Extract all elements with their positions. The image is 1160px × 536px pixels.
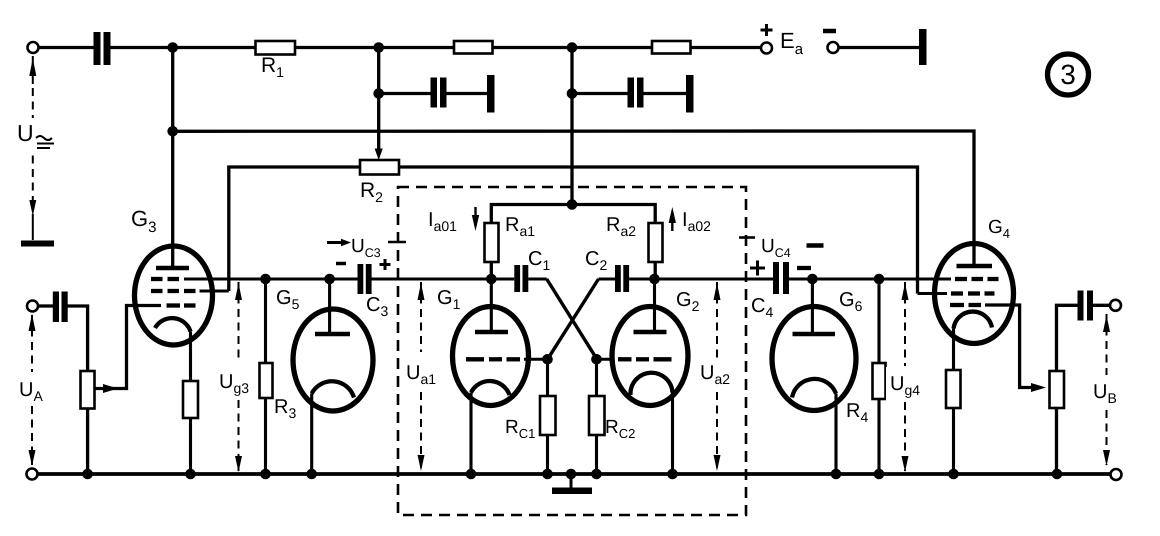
resistor R4	[873, 363, 886, 399]
decoupling left long bar	[487, 75, 495, 113]
node: bus / G6 anode	[807, 274, 818, 285]
node: rail / Rc1	[542, 469, 553, 480]
tube G2 cathode arc	[630, 373, 672, 395]
node: top rail / G3 anode tap	[167, 42, 178, 53]
tube G4 grid row3 (control grid, exits right)	[950, 303, 981, 307]
node: rail / G6 cathode	[831, 469, 842, 480]
polarity plus at Ea	[761, 24, 773, 36]
polarity plus right of C3	[380, 259, 391, 270]
wire bottom rail	[38, 472, 1111, 476]
wire G2 cathode lead	[671, 393, 674, 475]
node: rail / R4	[874, 469, 885, 480]
tube G2 envelope	[612, 307, 688, 406]
terminal: UB output	[1110, 300, 1121, 311]
node: Ra1/Ra2 feed junction	[567, 199, 578, 210]
resistor Rc1	[540, 396, 556, 435]
wire top rail R1 to box2	[295, 46, 454, 49]
node: bus / G5 anode	[324, 274, 335, 285]
terminal: input U~ (top-left)	[28, 42, 39, 53]
tube G5 envelope	[293, 309, 373, 411]
resistor Ra1	[485, 223, 499, 262]
node: rail / G1 cathode	[466, 469, 477, 480]
wire top rail box3 to Ea plus terminal	[691, 46, 762, 49]
capacitor C3 plates	[358, 264, 372, 294]
tube G6 envelope	[772, 307, 856, 411]
tube G5 anode bar	[315, 332, 350, 337]
cross-coupling diagonal C2 to G1 grid	[548, 279, 599, 359]
tube G4 cathode arc	[954, 312, 993, 329]
wire input UA terminal to cap	[38, 304, 53, 307]
wire G1 anode lead	[490, 279, 493, 331]
wire bus diagonal start to C2 left plate	[599, 277, 616, 280]
wire decoupling row right: junction to cap	[572, 92, 628, 95]
capacitor C1 plates	[514, 265, 528, 292]
resistor R3	[260, 363, 273, 398]
tube G4 grid row1 (dashes, joins bus at left)	[955, 277, 999, 281]
tube G4 grid row2 (dashes, exits left up to R2 line)	[918, 292, 995, 295]
wire top rail box2 to box3	[493, 46, 653, 49]
wire vertical x172.7 top rail to G3 anode	[171, 48, 174, 267]
svg-text:3: 3	[1060, 59, 1076, 90]
node: rail / ground stem	[566, 469, 577, 480]
wire Ea minus terminal to end bar	[839, 46, 920, 49]
node: rail / output pot	[1052, 469, 1063, 480]
figure number circled 3	[1048, 54, 1089, 95]
capacitor (input coupling, top-left): plates	[94, 32, 111, 65]
polarity minus at Ea	[823, 29, 836, 34]
wire y167 left segment from G3 grid2 corner to R2	[229, 167, 360, 291]
tube G3 anode plate bar	[156, 266, 189, 271]
node: G1 grid / Rc1 / diagonal	[542, 354, 553, 365]
svg-text:U: U	[17, 120, 34, 146]
decoupling right long bar	[686, 75, 694, 113]
tube G6 anode bar	[793, 332, 836, 337]
node: top rail / Ra feed	[567, 42, 578, 53]
cross-coupling diagonal C1 to G2 grid	[547, 279, 597, 359]
wire G6 cathode lead	[834, 394, 837, 475]
terminal: Ea plus	[761, 43, 772, 54]
measure line Ua1	[420, 282, 422, 470]
dashed box around multivibrator	[398, 187, 746, 515]
wire G5 cathode lead	[310, 394, 313, 475]
wire decoupling row left: cap to bar	[446, 92, 487, 95]
arrow for current Ia01 (down)	[474, 207, 476, 226]
tube G2 anode plate bar	[634, 330, 667, 335]
node: rail / G2 cathode	[667, 469, 678, 480]
wire output pot top to coupling cap	[1057, 305, 1078, 371]
arrow for Uc3 (points right)	[327, 241, 343, 244]
measure line U~ with arrow and ground bar	[32, 56, 34, 240]
node: bus / G1 anode / Ra1	[486, 274, 497, 285]
wire Rc1 stem	[546, 359, 549, 396]
wire G5 anode lead	[328, 279, 331, 333]
wire bus C1 right plate to diagonal start	[528, 277, 547, 280]
resistor (top rail, unlabeled, second)	[454, 41, 493, 54]
wire decoupling row right: cap to bar	[643, 92, 687, 95]
wire bus C3 to G1 anode junction and C1	[372, 277, 515, 280]
wire input cap to pot corner	[68, 306, 88, 371]
node: y131 tap at G3 anode	[167, 126, 178, 137]
arrowhead onto R2	[375, 149, 383, 161]
node: bus / R3	[260, 274, 271, 285]
measure line Ug4	[904, 282, 906, 471]
tube G3 grid row1 (dashes, exits right to bus)	[151, 277, 179, 281]
wire bus C4 to G4 row1	[789, 277, 951, 280]
wire output pot bottom to rail	[1055, 408, 1058, 474]
tube G1 grid row (dashes, exits right)	[466, 357, 548, 361]
polarity minus left of C3	[336, 262, 346, 266]
tube G5 cathode arc	[312, 381, 354, 397]
wire decoupling row left: junction to cap	[379, 92, 431, 95]
label masks for dashed lines	[14, 118, 1126, 409]
wire Ra2 bottom lead	[654, 262, 657, 279]
tube G3 cathode arc	[155, 318, 191, 331]
wire G3 grid3 exit to pot wiper	[95, 306, 162, 389]
battery end bar after Ea	[919, 29, 927, 65]
terminal: bottom-right rail	[1111, 469, 1122, 480]
arrow for current Ia02 (up)	[671, 212, 673, 231]
node: decoupling cap right	[567, 88, 578, 99]
capacitor C2 plates	[615, 265, 629, 292]
wire horizontal y131 from x172.7 to G4 anode corner	[173, 131, 974, 264]
ground symbol at bottom center	[552, 474, 592, 491]
tube G3 grid row2 (dashes, exits right up to R2 line)	[151, 289, 229, 293]
capacitor (output coupling, right): plates	[1078, 291, 1094, 321]
resistor R1	[256, 41, 296, 55]
tube G1 envelope	[453, 307, 529, 406]
resistor R2	[360, 160, 399, 175]
node: rail / G3 cathode R	[185, 469, 196, 480]
wiper arrowhead of input potentiometer	[103, 384, 118, 393]
measure line UA	[31, 315, 33, 465]
wire grid bus y279: G3 row1 exit to C3	[184, 277, 358, 280]
measure line Ua2	[716, 282, 718, 470]
resistor (G3 cathode)	[183, 381, 198, 418]
wire Rc2 stem	[595, 359, 598, 396]
wire Ra feed line y204.5	[491, 205, 655, 224]
tube G3 envelope	[135, 246, 213, 345]
node: rail / G5 cathode	[306, 469, 317, 480]
node: bus / G2 anode / Ra2	[649, 274, 660, 285]
tube G3 grid row3 (control grid, exits left)	[167, 303, 196, 307]
polarity minus right of C4	[797, 266, 811, 270]
node: rail / G4 cathode R	[948, 469, 959, 480]
wire R3 from bus to rail	[264, 279, 267, 363]
wire G4 grid3 exit down to wiper arrow	[985, 305, 1031, 388]
tube G4 envelope	[935, 244, 1014, 344]
wire y167 right segment from R2 to G4 grid2	[399, 167, 918, 294]
wire G6 anode lead	[811, 279, 814, 333]
node: top rail / R2 feed	[373, 42, 384, 53]
terminal: UA input	[27, 301, 38, 312]
wire bus C2 to C4	[629, 277, 773, 280]
wire G2 anode lead	[653, 279, 656, 331]
tube G1 anode plate bar	[475, 330, 508, 335]
resistor Ra2	[649, 223, 663, 262]
wire top rail left segment	[39, 46, 95, 49]
resistor Rc2	[589, 396, 605, 435]
wire pot bottom to rail	[86, 409, 89, 475]
tube G4 anode plate bar	[957, 264, 993, 269]
tick on dashed box edge at Uc4	[739, 236, 755, 239]
polarity plus left of C4	[750, 261, 765, 276]
wire vertical x378.7 top rail down to R2 arrow	[377, 48, 380, 153]
wire G4 cathode lead to resistor	[952, 329, 955, 371]
node: rail / input pot	[82, 469, 93, 480]
tube G6 cathode arc	[792, 379, 836, 398]
wire output cap to UB terminal	[1093, 304, 1110, 307]
wire vertical x572 top rail down to Ra feed junction	[570, 48, 573, 205]
node: bus / R4	[874, 274, 885, 285]
bar after Uc4	[807, 243, 824, 248]
measure line UB	[1106, 314, 1108, 465]
capacitor (anode decoupling left): plates	[431, 75, 495, 113]
capacitor (anode decoupling right): plates	[628, 75, 694, 113]
node: rail / Rc2	[591, 469, 602, 480]
measure line Ug3	[238, 282, 240, 471]
wire R4 from bus to rail	[877, 279, 880, 363]
wire G1 cathode lead	[469, 393, 472, 475]
wire top rail cap to R1	[111, 46, 256, 49]
node: G2 grid / Rc2 / diagonal	[591, 354, 602, 365]
resistor (G4 cathode)	[946, 370, 961, 408]
capacitor C4 plates	[773, 262, 789, 294]
tick on dashed box edge at Uc3	[388, 241, 406, 244]
terminal: bottom-left rail	[27, 469, 38, 480]
wire G3 cathode lead to resistor	[189, 332, 192, 382]
terminal: Ea minus	[828, 42, 839, 53]
potentiometer (input, left) body	[81, 371, 95, 409]
node: decoupling cap left	[373, 88, 384, 99]
node: rail / R3	[260, 469, 271, 480]
resistor (top rail, unlabeled, third)	[652, 41, 691, 54]
tube G1 cathode arc	[471, 381, 510, 395]
wire Ra1 bottom lead	[490, 262, 493, 279]
wiper arrowhead of output potentiometer	[1031, 383, 1046, 392]
tube G2 grid row (dashes, exits left)	[597, 358, 672, 361]
reference bar under U~	[21, 241, 54, 247]
potentiometer (output, right) body	[1050, 371, 1065, 408]
